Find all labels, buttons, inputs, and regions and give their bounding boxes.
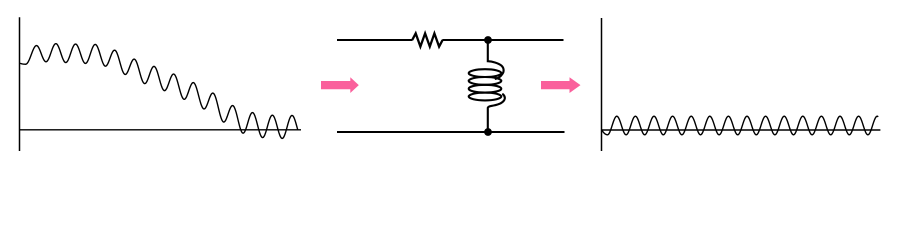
right plot vertical axis (601, 18, 603, 151)
left plot vertical axis (19, 17, 21, 151)
right plot horizontal axis (601, 129, 880, 131)
wire top right (442, 39, 563, 41)
wire bottom (337, 131, 565, 133)
inductor L1 top lead (488, 40, 504, 79)
left plot horizontal axis (19, 129, 301, 131)
wire top left (337, 39, 413, 41)
inductor L1 coil turns (469, 69, 502, 77)
right output waveform (602, 116, 879, 135)
junction node bottom (484, 128, 492, 136)
resistor R1 (412, 33, 442, 46)
input arrow (321, 77, 359, 93)
junction node top (484, 36, 492, 44)
output arrow (541, 77, 581, 93)
left input waveform (20, 44, 298, 139)
inductor L1 bottom lead (488, 94, 505, 132)
